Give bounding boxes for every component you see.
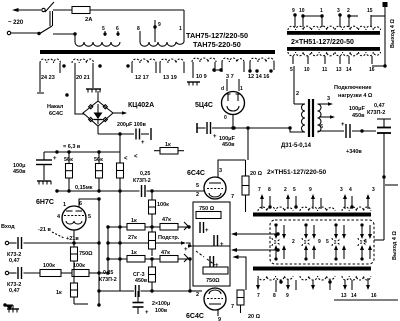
plate risers to 5Ts4S bbox=[226, 79, 228, 91]
svg-text:9: 9 bbox=[158, 22, 161, 28]
mains contact circle top bbox=[42, 8, 45, 11]
bridge diode squares bbox=[89, 105, 93, 109]
svg-text:7: 7 bbox=[257, 293, 260, 299]
svg-text:5: 5 bbox=[88, 214, 91, 220]
svg-text:200μF 100в: 200μF 100в bbox=[117, 122, 147, 128]
svg-text:12 17: 12 17 bbox=[135, 75, 149, 81]
tube 6S4S top bbox=[204, 177, 226, 199]
svg-text:+: + bbox=[213, 134, 217, 140]
resistor 1k row2 bbox=[127, 256, 145, 263]
mains contact circle bottom bbox=[7, 31, 10, 34]
svg-text:9: 9 bbox=[292, 8, 295, 14]
mains arrowhead bbox=[12, 8, 19, 12]
rail 6.3v bbox=[44, 151, 120, 153]
g2 left lead to bridge bbox=[75, 63, 84, 114]
5Ts4S cathode lead bbox=[232, 115, 234, 129]
T1 HV winding g6 bbox=[222, 58, 244, 62]
svg-text:10: 10 bbox=[299, 8, 305, 14]
T1 primary winding A bbox=[75, 42, 120, 46]
svg-text:2×ТН51-127/220-50: 2×ТН51-127/220-50 bbox=[267, 169, 327, 176]
svg-text:3: 3 bbox=[219, 168, 222, 174]
svg-text:Подстр.: Подстр. bbox=[158, 235, 180, 241]
wire to 6S4S grid bbox=[147, 190, 205, 192]
tube 6S4S bottom bbox=[204, 288, 226, 310]
svg-text:Накал: Накал bbox=[47, 104, 64, 110]
5Ts4S filament bbox=[227, 106, 239, 111]
svg-text:+: + bbox=[341, 122, 345, 128]
svg-text:47к: 47к bbox=[162, 217, 171, 223]
resistor 56k A bbox=[66, 164, 73, 179]
svg-text:7: 7 bbox=[231, 304, 234, 310]
svg-text:+: + bbox=[145, 310, 149, 316]
svg-text:+21в: +21в bbox=[66, 236, 79, 242]
svg-text:450в: 450в bbox=[352, 113, 365, 119]
svg-text:-21 в: -21 в bbox=[38, 227, 51, 233]
svg-text:5: 5 bbox=[196, 183, 199, 189]
resistor 750 top in box bbox=[196, 212, 221, 219]
choke left bottom lead bbox=[290, 128, 305, 132]
wire bottom pole bbox=[11, 32, 38, 34]
svg-text:+: + bbox=[205, 228, 209, 234]
svg-text:КЦ402А: КЦ402А bbox=[128, 102, 154, 109]
primary B left tick bbox=[139, 31, 141, 42]
svg-text:750 Ω: 750 Ω bbox=[199, 206, 215, 212]
svg-text:47к: 47к bbox=[161, 250, 170, 256]
svg-text:0,25: 0,25 bbox=[140, 171, 150, 177]
resistor 1k top bbox=[160, 148, 178, 155]
bottom secondary arcs bbox=[258, 276, 293, 280]
output transformer core bar 2 bbox=[253, 267, 371, 271]
svg-text:+: + bbox=[215, 263, 219, 269]
svg-text:7: 7 bbox=[258, 187, 261, 193]
5Ts4S anodes bbox=[227, 94, 229, 101]
primary right wire to rail bbox=[374, 239, 384, 241]
wire switch to fuse bbox=[53, 9, 72, 11]
svg-text:2×ТН51-127/220-50: 2×ТН51-127/220-50 bbox=[291, 39, 354, 46]
svg-text:5: 5 bbox=[326, 239, 329, 245]
svg-text:4: 4 bbox=[364, 239, 367, 245]
primary B right lead to top wire bbox=[183, 10, 185, 42]
switch S1 blade top bbox=[45, 2, 54, 12]
svg-text:9: 9 bbox=[318, 239, 321, 245]
ground comb A bbox=[86, 88, 101, 90]
ground tick terminal bbox=[196, 123, 198, 133]
cap film bottom bbox=[135, 285, 137, 297]
cap pair C bbox=[209, 256, 211, 267]
svg-text:8: 8 bbox=[137, 26, 140, 32]
svg-text:ТАН75-127/220-50: ТАН75-127/220-50 bbox=[186, 31, 248, 40]
svg-text:Выход 4 Ω: Выход 4 Ω bbox=[392, 231, 398, 260]
primary bottom arrows bbox=[275, 247, 277, 259]
resistor 47k row1 bbox=[160, 224, 178, 231]
mains input arrow bbox=[14, 9, 41, 11]
svg-text:3: 3 bbox=[327, 96, 330, 102]
svg-text:0,47: 0,47 bbox=[374, 103, 385, 109]
ground comb C bbox=[37, 180, 51, 182]
ground comb B bbox=[187, 81, 200, 83]
pin6 wire bbox=[79, 199, 99, 207]
svg-text:6С4С: 6С4С bbox=[49, 111, 63, 117]
svg-text:К73П-2: К73П-2 bbox=[367, 110, 385, 116]
wire y191 bbox=[57, 190, 140, 192]
svg-text:4: 4 bbox=[349, 187, 352, 193]
svg-text:Выход 4 Ω: Выход 4 Ω bbox=[390, 19, 396, 48]
electrolytic bottom bbox=[137, 291, 139, 302]
upper pin stubs bbox=[294, 15, 296, 27]
trimmer resistor 2 bbox=[151, 259, 153, 267]
svg-text:К73П-2: К73П-2 bbox=[133, 178, 151, 184]
cap pair A bbox=[199, 222, 201, 233]
svg-text:1: 1 bbox=[179, 26, 182, 32]
top secondary arrow stubs bbox=[261, 196, 263, 209]
svg-text:14: 14 bbox=[346, 67, 352, 73]
rail x120 down bbox=[119, 134, 121, 163]
svg-text:15: 15 bbox=[367, 8, 373, 14]
bottom secondary arrow stubs bbox=[257, 278, 259, 288]
trimmer resistor bbox=[149, 232, 156, 249]
svg-text:9: 9 bbox=[309, 187, 312, 193]
svg-text:~ 220: ~ 220 bbox=[8, 20, 24, 26]
T1 secondary winding g3 bbox=[132, 59, 156, 63]
svg-text:6С4С: 6С4С bbox=[187, 170, 205, 177]
svg-text:<: < bbox=[124, 156, 128, 162]
cap K73-2 0,47 input2 bbox=[17, 267, 19, 279]
B+ wire y128 bbox=[197, 127, 206, 129]
resistor 100k in1 bbox=[40, 270, 61, 277]
svg-text:0,25: 0,25 bbox=[103, 270, 113, 276]
svg-text:56к: 56к bbox=[94, 157, 103, 163]
svg-text:+340в: +340в bbox=[346, 149, 362, 155]
svg-text:+: + bbox=[184, 247, 188, 253]
resistor 1k bottom bbox=[71, 283, 78, 297]
svg-text:0,47: 0,47 bbox=[9, 258, 20, 264]
link g5-g6 bbox=[214, 69, 222, 71]
output terminal square bbox=[383, 2, 388, 7]
svg-text:27к: 27к bbox=[128, 235, 137, 241]
svg-text:750Ω: 750Ω bbox=[206, 278, 220, 284]
svg-text:14: 14 bbox=[351, 293, 357, 299]
resistor 56k B bbox=[96, 164, 103, 179]
svg-text:100к: 100к bbox=[43, 263, 55, 269]
svg-text:100к: 100к bbox=[73, 263, 85, 269]
cap 200uF 100v bbox=[135, 129, 137, 140]
svg-text:100μF: 100μF bbox=[349, 106, 366, 112]
ground comb D bbox=[7, 308, 19, 310]
svg-text:3: 3 bbox=[372, 187, 375, 193]
wire y291 bbox=[99, 290, 134, 292]
svg-text:6: 6 bbox=[320, 124, 323, 130]
svg-text:2: 2 bbox=[296, 91, 299, 97]
svg-text:20 Ω: 20 Ω bbox=[250, 171, 263, 177]
cap 100uF 450v mid bbox=[206, 122, 208, 134]
svg-text:20 Ω: 20 Ω bbox=[248, 314, 261, 320]
svg-text:13 19: 13 19 bbox=[163, 75, 177, 81]
svg-text:9: 9 bbox=[286, 293, 289, 299]
choke D31-5-0,14 core bbox=[308, 99, 310, 137]
svg-text:1: 1 bbox=[63, 202, 66, 208]
resistor 20 ohm top bbox=[245, 160, 247, 176]
svg-text:Д31-5-0,14: Д31-5-0,14 bbox=[281, 143, 312, 149]
svg-text:<: < bbox=[134, 154, 138, 160]
svg-text:16: 16 bbox=[369, 67, 375, 73]
svg-text:8: 8 bbox=[273, 293, 276, 299]
wire to output transformer mid B bbox=[232, 249, 278, 251]
svg-text:1к: 1к bbox=[131, 218, 137, 224]
svg-text:10: 10 bbox=[304, 67, 310, 73]
primary dashed box bbox=[270, 220, 374, 264]
choke pin3 tap arrow bbox=[318, 103, 332, 105]
svg-text:100в: 100в bbox=[155, 308, 168, 314]
wire fuse to winding B bbox=[90, 9, 184, 11]
T1 core bar bbox=[40, 50, 275, 54]
resistor 100k grid bbox=[151, 191, 153, 200]
wire to primary A bbox=[53, 33, 75, 35]
svg-text:11: 11 bbox=[322, 67, 328, 73]
primary top arrows bbox=[275, 225, 277, 237]
svg-text:12 14 16: 12 14 16 bbox=[248, 74, 269, 80]
TN51 top core bar 2 bbox=[287, 47, 380, 51]
divider row2 bbox=[108, 258, 127, 260]
svg-text:К73П-2: К73П-2 bbox=[99, 277, 117, 283]
right rail down bbox=[383, 133, 385, 240]
svg-text:Вход: Вход bbox=[1, 224, 15, 230]
primary A pin ticks bbox=[104, 31, 106, 36]
svg-text:3: 3 bbox=[337, 8, 340, 14]
cap 0,47 K73P-2 right bbox=[377, 118, 391, 120]
svg-text:d: d bbox=[221, 86, 224, 92]
choke bottom lead B+ bbox=[318, 130, 345, 132]
resistor R rail bbox=[117, 163, 124, 178]
bridge top to ground bbox=[97, 91, 99, 101]
svg-text:6Н7С: 6Н7С bbox=[36, 199, 54, 206]
svg-text:5: 5 bbox=[102, 26, 105, 32]
grid wire bottom tube bbox=[189, 259, 191, 291]
svg-text:2: 2 bbox=[196, 292, 199, 298]
T1 heater winding g7 bbox=[250, 58, 274, 62]
rail x108 bbox=[107, 227, 109, 273]
fuse F1 2A bbox=[72, 7, 90, 14]
wire to output transformer mid A bbox=[232, 233, 278, 235]
svg-text:0,47: 0,47 bbox=[9, 288, 20, 294]
input terminal 1 bbox=[5, 241, 8, 244]
svg-text:+: + bbox=[141, 140, 145, 146]
bottom 20 ohm feed bbox=[234, 257, 247, 290]
bridge right stub bbox=[113, 112, 126, 114]
svg-text:6: 6 bbox=[116, 26, 119, 32]
T1 secondary winding g1 bbox=[40, 59, 60, 63]
resistor 47k row2 bbox=[160, 256, 178, 263]
tube 6N7S bbox=[62, 206, 86, 230]
svg-text:7: 7 bbox=[231, 194, 234, 200]
svg-text:8: 8 bbox=[268, 187, 271, 193]
input terminal 2 bbox=[5, 271, 8, 274]
switch S1 blade bottom bbox=[39, 26, 52, 34]
svg-text:2: 2 bbox=[196, 192, 199, 198]
svg-text:2: 2 bbox=[292, 239, 295, 245]
T1 primary winding B bbox=[140, 42, 184, 46]
TN51 top core bar 1 bbox=[287, 31, 380, 35]
resistor 1k row1 bbox=[127, 224, 145, 231]
T1 secondary winding g4 bbox=[160, 59, 184, 63]
svg-text:20 21: 20 21 bbox=[76, 75, 90, 81]
output transformer core bar 1 bbox=[253, 213, 371, 217]
switch link bars bbox=[49, 11, 51, 26]
wire y243 bbox=[108, 242, 149, 244]
divider row1 bbox=[108, 226, 127, 228]
tube 5Ts4S bbox=[222, 92, 245, 115]
svg-text:6: 6 bbox=[79, 201, 82, 207]
svg-text:24 23: 24 23 bbox=[41, 75, 55, 81]
svg-text:Подключение: Подключение bbox=[334, 85, 372, 91]
splitter box bbox=[193, 202, 230, 286]
svg-text:0: 0 bbox=[224, 115, 227, 121]
svg-text:56к: 56к bbox=[64, 157, 73, 163]
svg-text:1к: 1к bbox=[56, 290, 62, 296]
right rail top bbox=[384, 7, 386, 66]
svg-text:9: 9 bbox=[218, 317, 221, 321]
dashed trimmer arrow bbox=[196, 251, 204, 257]
left rail x99 bbox=[98, 199, 100, 305]
primary B tap bbox=[154, 20, 156, 42]
svg-text:16: 16 bbox=[371, 293, 377, 299]
upper link wires bbox=[303, 15, 322, 17]
choke left winding bbox=[302, 104, 306, 132]
cap 100uF 450v left bbox=[43, 152, 45, 160]
svg-text:2×100μ: 2×100μ bbox=[152, 301, 170, 307]
cap 0,25 K73P-2 bbox=[141, 185, 143, 197]
svg-text:100к: 100к bbox=[157, 202, 169, 208]
cap pair B bbox=[213, 235, 215, 246]
g2 right lead to ground bbox=[92, 63, 94, 88]
bridge bottom lead bbox=[97, 126, 99, 134]
svg-text:13: 13 bbox=[341, 293, 347, 299]
feedback zigzags bbox=[184, 222, 188, 230]
TN51 top winding arcs upper bbox=[288, 26, 311, 30]
bridge center diode bbox=[94, 113, 103, 120]
T1 secondary winding g2 bbox=[72, 59, 94, 63]
lower pin stubs bbox=[292, 56, 294, 64]
cap 100uF 450v right bbox=[345, 124, 347, 138]
bias leader dashed bbox=[52, 232, 64, 238]
svg-text:2: 2 bbox=[347, 8, 350, 14]
resistor 750 bottom in box bbox=[203, 267, 228, 274]
svg-text:ТАН75-220-50: ТАН75-220-50 bbox=[193, 40, 241, 49]
svg-text:3: 3 bbox=[340, 187, 343, 193]
choke right winding bbox=[318, 104, 322, 132]
svg-text:6С4С: 6С4С bbox=[186, 313, 204, 320]
T1 HV winding g5 bbox=[192, 58, 216, 62]
resistor 750 cathode bbox=[71, 247, 78, 261]
svg-text:0,15мк: 0,15мк bbox=[75, 185, 93, 191]
svg-text:5: 5 bbox=[293, 187, 296, 193]
svg-text:1: 1 bbox=[320, 8, 323, 14]
svg-text:5: 5 bbox=[290, 67, 293, 73]
choke pin2 riser bbox=[293, 66, 295, 104]
wire y134 bbox=[98, 133, 134, 135]
TN51 bottom winding arcs bbox=[288, 52, 311, 56]
bridge KTs402A diamond bbox=[83, 101, 113, 126]
plate wire top bbox=[218, 160, 246, 178]
svg-text:2А: 2А bbox=[85, 17, 93, 23]
svg-text:10 9: 10 9 bbox=[196, 74, 207, 80]
svg-text:5Ц4С: 5Ц4С bbox=[195, 102, 213, 109]
svg-text:450в: 450в bbox=[135, 278, 148, 284]
cap K73-2 0,47 input1 bbox=[17, 237, 19, 249]
bottom left terminal bbox=[4, 304, 6, 306]
g1 end tick bbox=[37, 92, 44, 94]
svg-text:+: + bbox=[53, 156, 57, 162]
svg-text:2: 2 bbox=[284, 187, 287, 193]
svg-text:3 7: 3 7 bbox=[226, 74, 234, 80]
svg-text:450в: 450в bbox=[13, 169, 26, 175]
svg-text:4: 4 bbox=[57, 214, 61, 220]
cathode lead bbox=[73, 230, 75, 247]
choke mid tap arrow bbox=[319, 116, 333, 118]
svg-text:1: 1 bbox=[240, 86, 243, 92]
svg-text:450в: 450в bbox=[222, 142, 235, 148]
svg-text:13: 13 bbox=[336, 67, 342, 73]
svg-text:1к: 1к bbox=[131, 250, 137, 256]
svg-text:= 6,3 в: = 6,3 в bbox=[63, 144, 81, 150]
resistor 100k in2 bbox=[72, 270, 89, 277]
svg-text:нагрузки 4 Ω: нагрузки 4 Ω bbox=[338, 93, 373, 99]
svg-text:1к: 1к bbox=[165, 142, 171, 148]
svg-text:+: + bbox=[220, 242, 224, 248]
top secondary arcs bbox=[258, 207, 293, 211]
svg-text:750Ω: 750Ω bbox=[79, 251, 93, 257]
